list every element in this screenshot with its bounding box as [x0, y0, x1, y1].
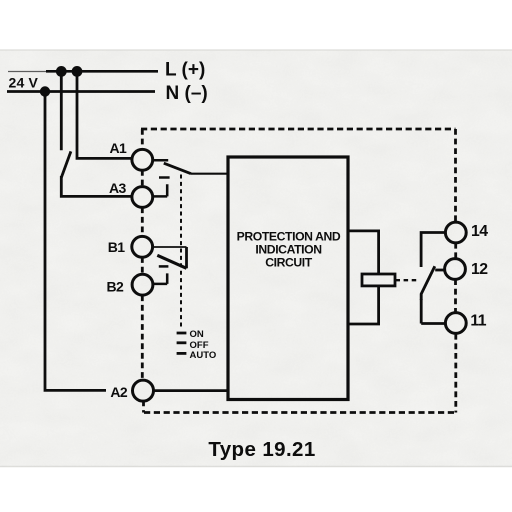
label A1: [110, 140, 128, 156]
svg-text:Type 19.21: Type 19.21: [208, 438, 315, 461]
svg-text:24 V: 24 V: [9, 74, 39, 90]
svg-text:AUTO: AUTO: [190, 350, 217, 361]
label AUTO: [190, 350, 217, 361]
selector switch blade: [157, 255, 186, 268]
junction dot on L rail feeding A1: [72, 66, 83, 77]
label ON: [190, 329, 204, 340]
relay contact blade 11-12: [421, 266, 435, 300]
label PROTECTION AND: [237, 230, 341, 244]
wire A3 riser to contact: [152, 184, 167, 196]
svg-text:12: 12: [471, 261, 488, 278]
label 24 V: [9, 74, 39, 90]
selector switch bar: [185, 247, 188, 268]
contact tick for B2 branch: [159, 265, 169, 268]
label OFF: [190, 340, 209, 351]
wire B2 riser to contact: [152, 273, 167, 284]
dashed module border left segments: [142, 129, 143, 413]
switch S1 blade (open): [61, 151, 71, 177]
wire terminal 11 riser: [421, 299, 446, 324]
selector switch B1 wire: [152, 246, 186, 248]
svg-text:N (–): N (–): [166, 83, 208, 104]
protection and indication circuit box U1: [228, 157, 348, 400]
junction dot on L rail feeding switch: [56, 66, 67, 77]
svg-text:A2: A2: [110, 384, 128, 400]
changeover blade from A1 to circuit input: [152, 160, 191, 173]
contact tick for A3 branch: [159, 176, 170, 179]
wire A2 to protection box: [153, 389, 228, 392]
terminal 12: [445, 259, 466, 280]
svg-text:B2: B2: [107, 278, 125, 294]
terminal 14: [445, 222, 466, 243]
caption Type 19.21: [208, 438, 315, 461]
terminal A2: [133, 380, 154, 401]
wire relay coil bottom to box: [347, 286, 379, 324]
label B1: [108, 239, 126, 255]
label CIRCUIT: [265, 255, 313, 269]
dashed module border top: [141, 128, 456, 131]
svg-text:11: 11: [470, 312, 486, 329]
junction dot on N rail feeding A2: [40, 86, 50, 96]
terminal A3: [132, 187, 153, 208]
label A2: [110, 384, 128, 400]
svg-text:14: 14: [471, 223, 488, 240]
label 12: [471, 261, 488, 278]
dashed module border right segments: [454, 129, 457, 413]
wire from L rail down to switch S1 top contact: [60, 71, 63, 150]
svg-text:A3: A3: [109, 180, 127, 196]
dashed module border bottom: [144, 411, 456, 414]
svg-text:A1: A1: [110, 140, 128, 156]
label INDICATION: [255, 243, 321, 257]
terminal A1: [132, 149, 153, 170]
terminal B1: [132, 236, 153, 257]
wire terminal 14 to open contact riser: [421, 233, 446, 268]
label L (+): [165, 59, 205, 80]
svg-text:CIRCUIT: CIRCUIT: [265, 255, 313, 269]
wire N rail: [7, 90, 155, 93]
wire box to relay coil top: [347, 231, 379, 274]
wire from switch S1 to A3: [61, 176, 132, 196]
wire from N rail down and right to A2: [45, 92, 106, 391]
label N (-): [166, 83, 208, 104]
selector position tick OFF: [177, 341, 187, 344]
selector position tick ON: [177, 332, 187, 335]
label B2: [107, 278, 125, 294]
relay coil K1: [362, 274, 395, 286]
svg-text:ON: ON: [190, 329, 204, 340]
svg-text:PROTECTION AND: PROTECTION AND: [237, 230, 341, 244]
mechanical link dashed coil to contact blade: [396, 279, 420, 281]
stub wire terminal 12: [435, 269, 445, 272]
mechanical link dashed from A1 blade to selector: [180, 175, 182, 328]
selector position tick AUTO: [177, 352, 187, 355]
terminal B2: [132, 274, 153, 295]
wire blade to protection box: [191, 173, 228, 175]
wire from L rail down and right to A1: [77, 71, 132, 158]
label 11: [470, 312, 486, 329]
svg-text:L (+): L (+): [165, 59, 205, 80]
svg-text:B1: B1: [108, 239, 126, 255]
terminal 11: [445, 313, 466, 334]
label 14: [471, 223, 488, 240]
wire L rail: [8, 70, 158, 72]
label A3: [109, 180, 127, 196]
